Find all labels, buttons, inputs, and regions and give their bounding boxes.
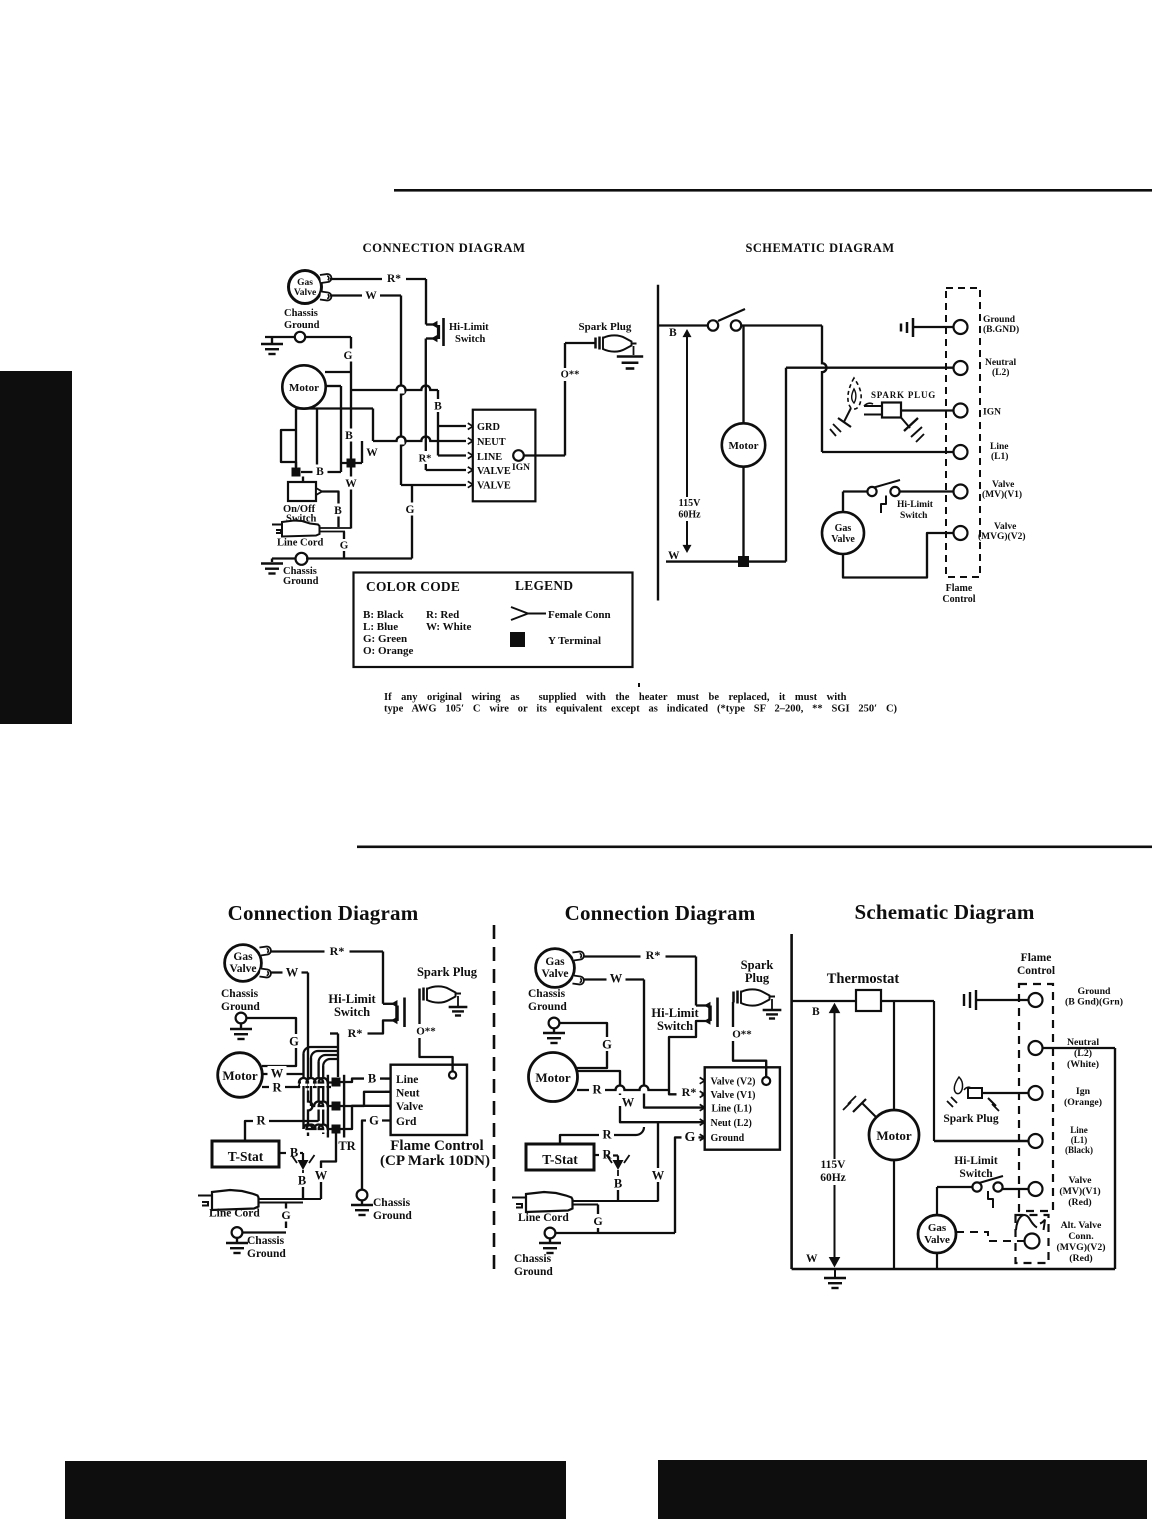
svg-text:Ground: Ground bbox=[1077, 986, 1111, 997]
svg-text:(MV)(V1): (MV)(V1) bbox=[982, 489, 1022, 500]
svg-text:Control: Control bbox=[1017, 965, 1055, 977]
terminal Valve V2 circle bbox=[954, 526, 968, 540]
svg-text:R: R bbox=[272, 1080, 282, 1094]
BL chassis ground CG4 bbox=[232, 1227, 243, 1238]
motor M1 circle bbox=[282, 365, 325, 408]
svg-text:W: W bbox=[365, 290, 377, 302]
svg-text:Y Terminal: Y Terminal bbox=[548, 635, 601, 647]
svg-text:(Black): (Black) bbox=[1065, 1145, 1093, 1155]
BL spark plug ground bbox=[457, 996, 459, 1006]
BL line cord cables bbox=[258, 1198, 321, 1200]
svg-text:G: G bbox=[685, 1130, 696, 1145]
svg-text:R: R bbox=[602, 1147, 612, 1161]
svg-text:R*: R* bbox=[387, 273, 401, 285]
svg-text:Valve: Valve bbox=[924, 1234, 950, 1246]
BL wire sq3 down to W bbox=[321, 1134, 336, 1169]
BR spark gap near motor bbox=[862, 1103, 876, 1117]
svg-text:Switch: Switch bbox=[959, 1168, 993, 1180]
wire G drop from cord to chassis bus bbox=[343, 532, 345, 559]
BL wire sq3 row to Valve bbox=[341, 1106, 391, 1129]
BR flame symbol bbox=[954, 1077, 962, 1094]
svg-text:Spark: Spark bbox=[741, 958, 774, 972]
BL t-stat B stub bbox=[279, 1152, 288, 1154]
BR wire gas valve to hi-limit to V1 bbox=[937, 1186, 973, 1188]
svg-text:(B Gnd)(Grn): (B Gnd)(Grn) bbox=[1065, 997, 1123, 1008]
legend Y terminal symbol bbox=[510, 632, 525, 647]
BL wire R from t-stat top bbox=[245, 1121, 253, 1141]
wire from switch to down rail bbox=[741, 324, 822, 326]
svg-text:Switch: Switch bbox=[657, 1019, 693, 1033]
BL wire sq3 left stub bbox=[305, 1126, 312, 1133]
BM chassis ground CG7 bbox=[545, 1228, 556, 1239]
wire Line L1 row bbox=[822, 451, 953, 453]
terminal Line circle bbox=[954, 445, 968, 459]
switch S2 lever bbox=[718, 309, 745, 321]
svg-text:Ground: Ground bbox=[221, 1001, 260, 1013]
svg-text:Chassis: Chassis bbox=[514, 1253, 552, 1265]
svg-text:(White): (White) bbox=[1067, 1059, 1099, 1070]
svg-text:B: B bbox=[298, 1173, 306, 1187]
svg-text:Switch: Switch bbox=[900, 511, 928, 521]
svg-text:GRD: GRD bbox=[477, 422, 500, 433]
svg-text:Ground: Ground bbox=[284, 320, 320, 331]
spark plug SP1 body bbox=[594, 338, 597, 349]
wire neutral row bbox=[786, 367, 953, 369]
svg-text:G: G bbox=[340, 540, 349, 552]
motor M1 stub top to G trunk bbox=[325, 371, 351, 373]
BR alt valve squiggle bbox=[1016, 1215, 1037, 1230]
svg-text:Gas: Gas bbox=[545, 956, 565, 968]
svg-text:LINE: LINE bbox=[477, 452, 502, 463]
terminal Ground circle bbox=[954, 320, 968, 334]
svg-text:(Red): (Red) bbox=[1068, 1197, 1091, 1208]
switch S2 contacts bbox=[708, 320, 718, 330]
BL motor R stub bbox=[300, 1084, 307, 1091]
BL hi-limit R* drop into Y frame bbox=[337, 1034, 339, 1078]
BR gas valve GV5 circle bbox=[918, 1215, 956, 1253]
svg-text:(L2): (L2) bbox=[992, 367, 1009, 378]
dashed separator between diagrams bbox=[493, 925, 496, 1277]
BL wire sq2 left stub bbox=[315, 1103, 322, 1110]
svg-text:(Orange): (Orange) bbox=[1064, 1097, 1102, 1108]
hi-limit switch S1 symbol bbox=[442, 318, 445, 346]
svg-text:Neutral: Neutral bbox=[985, 358, 1016, 368]
spark plug SP1 lead bbox=[565, 342, 595, 344]
BM TB2 circle bbox=[762, 1077, 770, 1085]
svg-text:B: Black: B: Black bbox=[363, 609, 405, 621]
svg-text:COLOR CODE: COLOR CODE bbox=[366, 579, 460, 594]
spark plug igniter box bbox=[882, 403, 901, 418]
svg-text:B: B bbox=[316, 466, 324, 478]
BL wire R* to hi-limit bbox=[270, 950, 383, 952]
svg-text:TR: TR bbox=[338, 1139, 356, 1153]
svg-text:Valve: Valve bbox=[1068, 1175, 1092, 1186]
wire G riser to terminal block bbox=[411, 486, 413, 559]
BL mesh vertical 1 hook bbox=[302, 1054, 304, 1129]
hi-limit S3 actuator bracket bbox=[881, 496, 886, 514]
wire chassis ground CG2 bus to G trunk right bbox=[306, 557, 412, 559]
svg-text:Line Cord: Line Cord bbox=[209, 1208, 260, 1220]
svg-text:Chassis: Chassis bbox=[373, 1197, 411, 1209]
schematic left rail bbox=[657, 285, 659, 601]
svg-text:Control: Control bbox=[942, 594, 975, 605]
svg-text:(CP Mark 10DN): (CP Mark 10DN) bbox=[380, 1153, 490, 1169]
wire from Y terminal T1 up-left bbox=[281, 430, 296, 468]
svg-text:W: W bbox=[610, 971, 623, 985]
motor M2 to W bus bbox=[742, 467, 744, 562]
svg-text:O**: O** bbox=[732, 1029, 752, 1041]
BM t-stat TS2 box bbox=[526, 1144, 594, 1170]
svg-text:Ign: Ign bbox=[1076, 1086, 1091, 1097]
BR terminal V2 circle bbox=[1025, 1234, 1040, 1249]
BM wire W to Line row bbox=[644, 1104, 705, 1108]
BR spark plug small bbox=[964, 1087, 971, 1090]
BL wire sq2 row to Neut bbox=[341, 1092, 391, 1106]
wire igniter to IGN terminal bbox=[901, 409, 953, 411]
svg-text:Hi-Limit: Hi-Limit bbox=[651, 1006, 699, 1020]
svg-text:Spark Plug: Spark Plug bbox=[579, 321, 632, 333]
svg-text:G: G bbox=[602, 1037, 612, 1051]
BL chassis ground CG5 (flame control) bbox=[357, 1190, 368, 1201]
BL mesh vertical 4 bbox=[322, 1066, 324, 1134]
svg-text:CONNECTION DIAGRAM: CONNECTION DIAGRAM bbox=[362, 241, 525, 255]
bottom-right black bar bbox=[658, 1460, 1147, 1519]
motor M1 lower stub / under-motor bus bbox=[296, 407, 373, 409]
svg-text:LEGEND: LEGEND bbox=[515, 578, 573, 593]
svg-text:Line: Line bbox=[990, 442, 1008, 452]
earth ground for spark plug bbox=[617, 355, 643, 358]
BR wire B top line bbox=[792, 1000, 856, 1002]
svg-text:B: B bbox=[345, 430, 353, 442]
svg-text:Valve: Valve bbox=[994, 522, 1016, 532]
svg-text:Chassis: Chassis bbox=[284, 308, 318, 319]
svg-text:115V: 115V bbox=[821, 1159, 847, 1171]
svg-text:60Hz: 60Hz bbox=[678, 510, 701, 521]
BL hi-limit stub top bbox=[383, 1003, 395, 1005]
svg-text:R: R bbox=[592, 1082, 602, 1096]
BM hi-limit stub top bbox=[696, 1004, 708, 1006]
BR 115V label bbox=[813, 1159, 853, 1185]
svg-text:(B.GND): (B.GND) bbox=[983, 324, 1019, 335]
neutral drop to W bus bbox=[785, 368, 787, 562]
BL t-stat TS1 box bbox=[212, 1141, 279, 1167]
footnote stray tick bbox=[638, 683, 640, 687]
BL hi-limit stub bottom bbox=[346, 1020, 395, 1033]
svg-text:Line: Line bbox=[1070, 1125, 1088, 1135]
BM motor W stub bbox=[577, 1071, 620, 1098]
svg-text:B: B bbox=[669, 327, 677, 339]
motor mid trunk down to Y terminal row bbox=[340, 386, 342, 472]
terminal Neutral circle bbox=[954, 361, 968, 375]
BM hi-limit switch S5 bars bbox=[716, 998, 719, 1028]
svg-text:Motor: Motor bbox=[876, 1128, 912, 1143]
BL Y terminal square 3 bbox=[332, 1125, 341, 1134]
BM motor R stub bbox=[617, 1087, 624, 1094]
115V 60Hz label bbox=[675, 497, 705, 521]
BM wire G drop from cord bbox=[597, 1205, 599, 1215]
svg-text:(L2): (L2) bbox=[1074, 1048, 1092, 1059]
BL mesh vertical 2 bbox=[310, 1058, 312, 1106]
svg-text:Valve: Valve bbox=[229, 963, 256, 975]
svg-text:IGN: IGN bbox=[983, 408, 1001, 418]
vertical to B row bbox=[316, 409, 318, 473]
svg-text:B: B bbox=[334, 505, 342, 517]
svg-text:R*: R* bbox=[330, 944, 345, 958]
BR 115V arrow bbox=[834, 1008, 836, 1262]
left sidebar black tab bbox=[0, 371, 72, 724]
svg-text:O**: O** bbox=[416, 1026, 436, 1038]
BL wire W trunk bbox=[270, 971, 308, 973]
svg-text:Valve: Valve bbox=[541, 968, 568, 980]
BM gas valve terminal R bbox=[572, 951, 584, 960]
svg-text:VALVE: VALVE bbox=[477, 466, 511, 477]
svg-text:O: Orange: O: Orange bbox=[363, 645, 414, 657]
svg-text:Switch: Switch bbox=[334, 1005, 370, 1019]
svg-text:Thermostat: Thermostat bbox=[827, 971, 900, 987]
spark gap electrode right bbox=[901, 418, 910, 429]
svg-text:W: W bbox=[286, 965, 299, 979]
svg-text:Gas: Gas bbox=[297, 278, 313, 288]
BR alt valve dashed boxlet bbox=[1016, 1215, 1049, 1263]
svg-text:Line: Line bbox=[396, 1074, 418, 1086]
svg-text:Switch: Switch bbox=[455, 334, 485, 345]
BL wire G drop from cord bbox=[285, 1203, 287, 1229]
svg-text:W: W bbox=[271, 1066, 284, 1080]
svg-text:W: W bbox=[315, 1168, 328, 1182]
upper-left diagram chassis ground CG2 bottom bbox=[296, 553, 308, 565]
junction Y terminal on W bus bbox=[738, 556, 749, 567]
svg-text:Hi-Limit: Hi-Limit bbox=[954, 1155, 998, 1167]
svg-text:NEUT: NEUT bbox=[477, 437, 506, 448]
svg-text:Flame: Flame bbox=[1021, 952, 1052, 964]
BM wire R* to hi-limit bbox=[583, 955, 696, 957]
svg-text:(MVG)(V2): (MVG)(V2) bbox=[978, 531, 1025, 542]
svg-text:G: G bbox=[344, 350, 353, 362]
line cord LC1 plug bbox=[272, 525, 283, 534]
svg-text:Chassis: Chassis bbox=[221, 988, 259, 1000]
BL gas valve terminal W bbox=[259, 969, 271, 978]
svg-text:Flame Control: Flame Control bbox=[390, 1138, 483, 1154]
svg-text:Motor: Motor bbox=[729, 440, 759, 452]
BR spark gap slashes left bbox=[951, 1097, 957, 1103]
spark gap electrode left bbox=[844, 408, 851, 422]
gas valve GV1 terminal W bbox=[320, 292, 332, 301]
legend female conn symbol bbox=[511, 607, 528, 620]
svg-text:Valve (V2): Valve (V2) bbox=[711, 1077, 756, 1088]
svg-text:R*: R* bbox=[348, 1026, 363, 1040]
cross bus y390 bbox=[398, 387, 405, 394]
BR terminal Ground circle bbox=[1029, 993, 1043, 1007]
BL Y terminal square 1 bbox=[332, 1078, 341, 1087]
wire VALVE row 5 into terminal block bbox=[401, 484, 466, 486]
BR left rail bbox=[790, 934, 793, 1269]
wire B from switch to line cord bbox=[322, 492, 339, 528]
svg-text:Connection Diagram: Connection Diagram bbox=[565, 901, 756, 925]
BR terminal Line circle bbox=[1029, 1134, 1043, 1148]
terminal Valve V1 circle bbox=[954, 485, 968, 499]
svg-text:O**: O** bbox=[561, 370, 580, 381]
IGN terminal circle bbox=[513, 450, 524, 461]
svg-text:T-Stat: T-Stat bbox=[228, 1149, 264, 1164]
spark plug SP1 ground stub bbox=[633, 346, 635, 355]
BL Y-terminal frame bbox=[327, 1075, 329, 1138]
BM wire O** trunk bbox=[732, 1002, 734, 1027]
BL flame control box FC1 bbox=[391, 1065, 467, 1135]
flame symbol dashed teardrop bbox=[848, 378, 861, 409]
terminal block TB1 bbox=[473, 410, 536, 502]
svg-text:R*: R* bbox=[419, 454, 432, 465]
BR wire Line row bbox=[934, 1140, 1028, 1142]
BM spark plug ground bbox=[771, 999, 773, 1009]
wire black rail down to Line L1 bbox=[819, 364, 826, 371]
BL spark plug symbol bbox=[418, 989, 421, 1000]
svg-text:Valve: Valve bbox=[396, 1101, 423, 1113]
BL gas valve GV3 circle bbox=[225, 945, 262, 982]
BR motor branch bbox=[893, 1001, 895, 1110]
Y terminal T1 bbox=[292, 468, 301, 477]
svg-text:type AWG 105′ C wire or its eq: type AWG 105′ C wire or its equivalent e… bbox=[384, 704, 898, 715]
wire gas valve bottom loop to V2 bbox=[843, 533, 953, 578]
Y terminal T2 bbox=[347, 459, 356, 468]
hi-limit switch S3 contacts bbox=[867, 487, 876, 496]
svg-text:Hi-Limit: Hi-Limit bbox=[328, 992, 376, 1006]
svg-text:W: W bbox=[345, 478, 357, 490]
svg-text:W: White: W: White bbox=[426, 621, 471, 633]
svg-text:Schematic Diagram: Schematic Diagram bbox=[854, 900, 1034, 924]
svg-text:(Red): (Red) bbox=[1069, 1253, 1092, 1264]
BL Y terminal square 2 bbox=[332, 1102, 341, 1111]
wire IGN to spark plug O** trunk bbox=[524, 454, 565, 456]
svg-text:Hi-Limit: Hi-Limit bbox=[897, 500, 934, 510]
BR hi-limit contacts bbox=[972, 1182, 981, 1191]
terminal IGN circle bbox=[954, 404, 968, 418]
BL wire G to Grd bbox=[362, 1121, 391, 1190]
svg-text:W: W bbox=[806, 1253, 818, 1265]
BR thermostat box bbox=[856, 990, 881, 1011]
wire LINE row to B drop bbox=[438, 454, 466, 456]
wire B line to switch bbox=[658, 324, 708, 326]
BR dashed V2 wire bbox=[956, 1232, 1024, 1241]
svg-text:Valve (V1): Valve (V1) bbox=[711, 1090, 756, 1101]
BR terminal Ign circle bbox=[1029, 1086, 1043, 1100]
BM wire R* to Valve V1 label bbox=[677, 1085, 702, 1099]
section divider rule bbox=[357, 846, 1152, 849]
W bus bottom bbox=[666, 560, 786, 562]
svg-text:VALVE: VALVE bbox=[477, 481, 511, 492]
svg-text:Ground: Ground bbox=[711, 1133, 745, 1144]
wire GRD row bbox=[438, 425, 466, 427]
svg-text:Gas: Gas bbox=[928, 1222, 947, 1234]
svg-text:G: G bbox=[369, 1113, 379, 1127]
wire gas valve to hi-limit to V1 bbox=[843, 490, 868, 492]
BM gas valve terminal W bbox=[572, 976, 584, 985]
svg-text:Gas: Gas bbox=[233, 951, 253, 963]
BM hi-limit stub bottom bbox=[669, 1021, 708, 1094]
wire R* trunk from hi-limit down to VALVE row bbox=[425, 339, 427, 452]
svg-text:R: R bbox=[602, 1127, 612, 1141]
svg-text:Ground: Ground bbox=[528, 1001, 567, 1013]
svg-text:(MV)(V1): (MV)(V1) bbox=[1059, 1186, 1100, 1197]
svg-text:Neutral: Neutral bbox=[1067, 1037, 1099, 1048]
Y-terminal T2 link bbox=[361, 441, 363, 463]
BR line branch bbox=[933, 1001, 935, 1141]
motor M2 circle bbox=[722, 423, 765, 466]
wire B from Y terminal T1 to mid trunk bbox=[301, 471, 341, 473]
chassis ground CG1 symbol bbox=[265, 336, 295, 338]
svg-text:SPARK PLUG: SPARK PLUG bbox=[871, 390, 936, 400]
BL B arrow connector bbox=[300, 1152, 303, 1154]
BM wire G to Ground row bbox=[675, 1137, 705, 1233]
white trunk vertical to VALVE row bbox=[398, 387, 405, 394]
BR bottom rail bbox=[792, 1268, 1115, 1271]
svg-text:Conn.: Conn. bbox=[1068, 1231, 1094, 1242]
BM line cord cables bbox=[572, 1200, 658, 1202]
svg-text:Ground: Ground bbox=[247, 1248, 286, 1260]
BR gas valve bottom stub bbox=[936, 1253, 938, 1269]
BL motor M3 circle bbox=[218, 1053, 263, 1098]
BR motor M5 circle bbox=[869, 1110, 919, 1160]
wire G chassis ground to motor trunk bbox=[305, 336, 351, 338]
on/off switch SW1 body bbox=[288, 482, 316, 501]
BM t-stat R stub right bbox=[594, 1154, 600, 1156]
svg-text:Motor: Motor bbox=[289, 382, 319, 394]
BM B arrow connector bbox=[613, 1154, 618, 1156]
svg-text:Valve: Valve bbox=[992, 480, 1014, 490]
svg-text:B: B bbox=[812, 1006, 820, 1018]
wire W from gas valve down (white trunk) bbox=[330, 294, 401, 296]
BL gas valve terminal R bbox=[259, 946, 271, 955]
BR earth under rail bbox=[834, 1269, 836, 1277]
BL chassis ground CG3 symbol bbox=[236, 1013, 247, 1024]
svg-text:Neut (L2): Neut (L2) bbox=[711, 1118, 752, 1129]
svg-text:R: R bbox=[256, 1113, 266, 1127]
BL wire sq1 to Line stub with B label bbox=[341, 1079, 391, 1082]
BL hi-limit switch S4 bars bbox=[403, 998, 406, 1028]
svg-text:Line (L1): Line (L1) bbox=[712, 1103, 752, 1114]
svg-text:Ground: Ground bbox=[283, 576, 319, 587]
svg-text:(L1): (L1) bbox=[991, 451, 1008, 462]
BR ground antenna symbol bbox=[963, 994, 965, 1006]
ground antenna symbol bbox=[900, 324, 903, 332]
svg-text:R*: R* bbox=[646, 948, 661, 962]
svg-text:115V: 115V bbox=[679, 498, 701, 509]
BM motor M4 circle bbox=[529, 1053, 578, 1102]
svg-text:G: Green: G: Green bbox=[363, 633, 407, 645]
BM wire G from chassis bbox=[560, 1023, 608, 1068]
BM wire W trunk bbox=[583, 978, 644, 980]
wire NEUT row bus bbox=[398, 438, 405, 445]
svg-text:R*: R* bbox=[682, 1085, 697, 1099]
svg-text:(MVG)(V2): (MVG)(V2) bbox=[1057, 1242, 1106, 1253]
motor branch vertical bbox=[742, 326, 744, 424]
BR spark gap slashes right bbox=[988, 1098, 996, 1106]
svg-text:Neut: Neut bbox=[396, 1088, 420, 1100]
svg-text:Line Cord: Line Cord bbox=[277, 538, 324, 549]
BR terminal V1 circle bbox=[1029, 1182, 1043, 1196]
BL FC1 terminal circle bbox=[449, 1071, 456, 1078]
flame control dashed box bbox=[946, 288, 980, 577]
svg-text:Chassis: Chassis bbox=[247, 1235, 285, 1247]
BM gas valve GV4 circle bbox=[536, 949, 575, 988]
BL line cord LC2 plug bbox=[198, 1196, 213, 1206]
svg-text:Valve: Valve bbox=[294, 288, 316, 298]
svg-text:Chassis: Chassis bbox=[528, 988, 566, 1000]
BM chassis ground CG6 symbol bbox=[549, 1018, 560, 1029]
svg-text:B: B bbox=[368, 1071, 376, 1085]
svg-text:IGN: IGN bbox=[512, 463, 530, 473]
BL motor W stub bbox=[262, 1073, 303, 1075]
gas valve GV2 circle bbox=[822, 512, 864, 554]
